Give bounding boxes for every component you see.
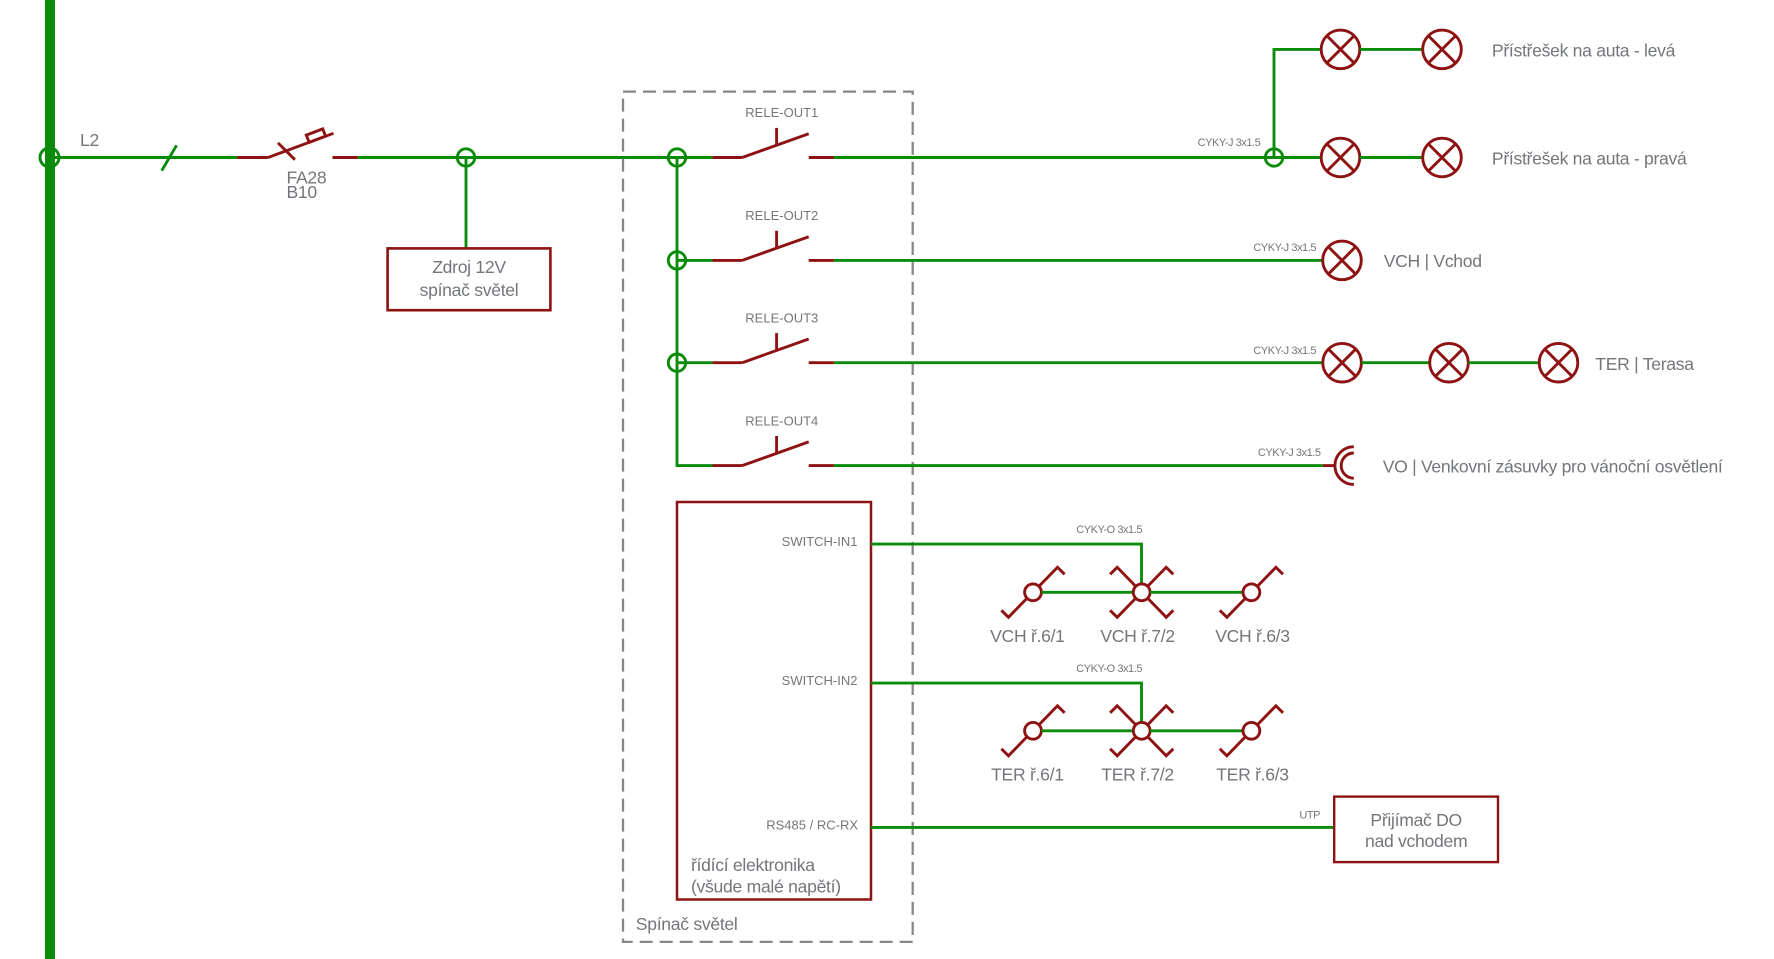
svg-text:TER ř.7/2: TER ř.7/2	[1101, 765, 1174, 785]
svg-text:(všude malé napětí): (všude malé napětí)	[691, 876, 841, 896]
receiver box Prijimac DO	[1334, 797, 1498, 863]
wire OUT4 to outdoor socket	[834, 464, 1323, 467]
node relay tap 3	[668, 354, 685, 371]
wire RS485 to receiver	[871, 826, 1334, 829]
switch TER r.7/2	[1110, 706, 1173, 756]
svg-text:RS485 / RC-RX: RS485 / RC-RX	[766, 818, 858, 833]
svg-text:SWITCH-IN1: SWITCH-IN1	[782, 534, 858, 549]
lamp carport left 1	[1321, 30, 1360, 69]
lamp carport right 1	[1321, 138, 1360, 177]
lamp carport right 2	[1423, 138, 1462, 177]
node supply tap	[457, 149, 474, 166]
wire SWITCH-IN1 to VCH switches	[871, 544, 1142, 584]
wire terrace lamp1-lamp2	[1361, 361, 1429, 364]
relay contact RELE-OUT4	[712, 436, 834, 466]
svg-text:CYKY-O 3x1.5: CYKY-O 3x1.5	[1076, 524, 1142, 536]
svg-text:UTP: UTP	[1299, 809, 1320, 821]
wire SWITCH-IN2 to TER switches	[871, 683, 1142, 722]
svg-text:VCH ř.6/1: VCH ř.6/1	[990, 626, 1065, 646]
svg-text:RELE-OUT4: RELE-OUT4	[745, 413, 818, 428]
wire TER sw1-sw2	[1041, 729, 1133, 732]
svg-text:L2: L2	[80, 130, 99, 150]
node carport junction	[1265, 149, 1282, 166]
svg-text:B10: B10	[287, 182, 318, 202]
svg-text:VCH ř.7/2: VCH ř.7/2	[1100, 626, 1175, 646]
svg-text:Přístřešek na auta - levá: Přístřešek na auta - levá	[1492, 41, 1676, 61]
svg-text:CYKY-J 3x1.5: CYKY-J 3x1.5	[1253, 345, 1316, 357]
svg-text:VCH ř.6/3: VCH ř.6/3	[1215, 626, 1290, 646]
svg-text:TER ř.6/1: TER ř.6/1	[991, 765, 1064, 785]
switch VCH r.6/3	[1220, 567, 1283, 617]
wire terrace lamp2-lamp3	[1468, 361, 1539, 364]
svg-text:CYKY-J 3x1.5: CYKY-J 3x1.5	[1198, 137, 1261, 149]
node relay tap 2	[668, 252, 685, 269]
wire VCH sw2-sw3	[1150, 591, 1243, 594]
wire drop to 12V supply	[465, 158, 468, 249]
controller box (ridici elektronika)	[677, 502, 871, 900]
svg-text:TER ř.6/3: TER ř.6/3	[1216, 765, 1289, 785]
svg-text:RELE-OUT3: RELE-OUT3	[745, 310, 818, 325]
node relay tap 1	[668, 149, 685, 166]
wire TER sw2-sw3	[1150, 729, 1243, 732]
lamp entrance lamp	[1323, 241, 1362, 280]
wire bus to breaker	[50, 156, 237, 159]
svg-text:RELE-OUT1: RELE-OUT1	[745, 105, 818, 120]
wire OUT1 to junction	[834, 156, 1321, 159]
switch TER r.6/3	[1220, 706, 1283, 756]
svg-text:VO | Venkovní zásuvky pro váno: VO | Venkovní zásuvky pro vánoční osvětl…	[1383, 457, 1723, 477]
svg-text:CYKY-O 3x1.5: CYKY-O 3x1.5	[1076, 663, 1142, 675]
relay contact RELE-OUT1	[712, 128, 834, 158]
switch TER r.6/1	[1001, 706, 1064, 756]
relay contact RELE-OUT3	[712, 333, 834, 363]
wire breaker to relays	[358, 156, 713, 159]
power supply box Zdroj 12V	[388, 248, 551, 310]
dashed enclosure Spinac svetel	[623, 92, 913, 942]
breaker FA28 B10	[237, 129, 357, 160]
power bus L2 (vertical feeder)	[45, 0, 55, 959]
lamp carport left 2	[1423, 30, 1462, 69]
wire between carport-left lamps	[1360, 48, 1423, 51]
svg-text:Přístřešek na auta - pravá: Přístřešek na auta - pravá	[1492, 149, 1687, 169]
wire OUT2 to entrance lamp	[834, 259, 1323, 262]
lamp terrace lamp 2	[1430, 343, 1469, 382]
svg-text:CYKY-J 3x1.5: CYKY-J 3x1.5	[1253, 242, 1316, 254]
svg-text:SWITCH-IN2: SWITCH-IN2	[782, 673, 858, 688]
switch VCH r.6/1	[1001, 567, 1064, 617]
wire VCH sw1-sw2	[1041, 591, 1133, 594]
wire branch up to left carport	[1274, 49, 1321, 157]
svg-text:Přijímač DO: Přijímač DO	[1370, 810, 1462, 830]
wire relay tap 3 feed	[677, 361, 712, 364]
svg-text:TER | Terasa: TER | Terasa	[1595, 354, 1694, 374]
lamp terrace lamp 3	[1539, 343, 1578, 382]
wire relay bus vertical	[677, 158, 712, 466]
wire between carport-right lamps	[1360, 156, 1423, 159]
svg-text:nad vchodem: nad vchodem	[1365, 831, 1467, 851]
relay contact RELE-OUT2	[712, 231, 834, 261]
svg-text:Spínač světel: Spínač světel	[636, 914, 738, 934]
wire relay tap 2 feed	[677, 259, 712, 262]
wire OUT3 to terrace lamps	[834, 361, 1323, 364]
svg-text:VCH | Vchod: VCH | Vchod	[1384, 251, 1482, 271]
lamp terrace lamp 1	[1323, 343, 1362, 382]
svg-text:řídící elektronika: řídící elektronika	[691, 855, 815, 875]
svg-text:CYKY-J 3x1.5: CYKY-J 3x1.5	[1258, 447, 1321, 459]
switch VCH r.7/2	[1110, 567, 1173, 617]
socket VO (outdoor outlet)	[1323, 447, 1354, 485]
svg-text:spínač světel: spínač světel	[420, 280, 519, 300]
phase slash mark	[162, 145, 177, 170]
svg-text:RELE-OUT2: RELE-OUT2	[745, 208, 818, 223]
node bus tap	[40, 148, 59, 167]
svg-text:Zdroj 12V: Zdroj 12V	[432, 257, 506, 277]
